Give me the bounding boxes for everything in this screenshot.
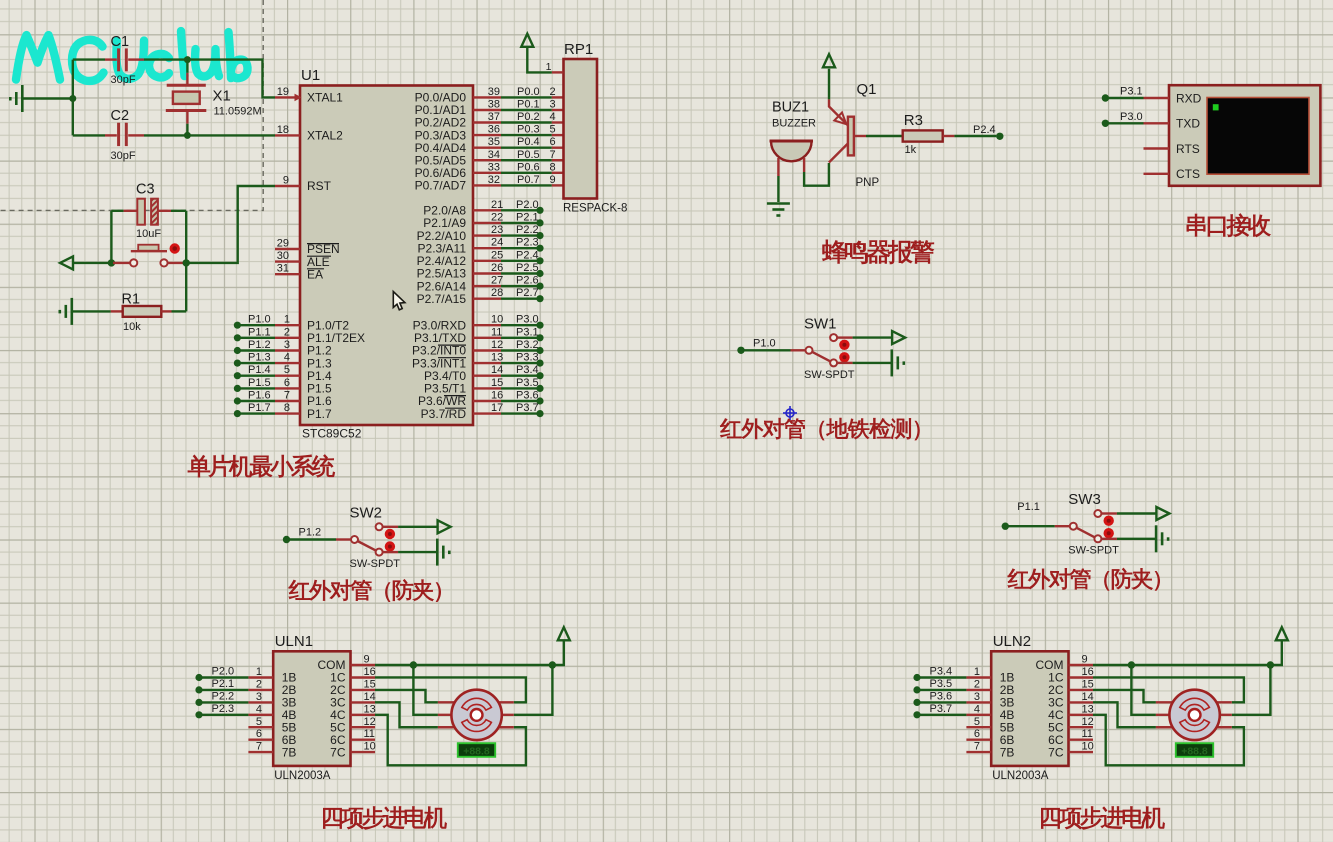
terminal dot P3.6 [536, 397, 543, 404]
svg-text:23: 23 [491, 224, 503, 236]
ULN1 pin 10 (7C) [351, 751, 376, 753]
svg-text:7: 7 [284, 390, 290, 402]
svg-text:1: 1 [256, 666, 262, 678]
terminal dot P2.6 [536, 283, 543, 290]
ground (SW1) [892, 349, 904, 376]
svg-text:C3: C3 [136, 182, 155, 198]
svg-text:29: 29 [277, 238, 289, 250]
power terminal VCC (ULN2 motor) [1276, 627, 1288, 640]
svg-text:5: 5 [284, 364, 290, 376]
capacitor C3 (electrolytic) [111, 199, 186, 225]
wire COM branch to motor left-middle (ULN1) [413, 665, 438, 715]
terminal dot P1.2 [234, 347, 241, 354]
origin crosshair marker [783, 406, 797, 420]
wire COM branch to motor right-middle (ULN2) [1232, 665, 1271, 715]
caption: IR pair (anti-pinch) right [1008, 568, 1160, 590]
overline P3.3/INT1 [438, 357, 466, 359]
ULN1 pin 2 (2B) [248, 689, 273, 691]
svg-text:P2.1: P2.1 [212, 678, 235, 690]
svg-text:P3.7: P3.7 [930, 703, 953, 715]
switch SW3 (SW-SPDT) [1002, 510, 1114, 542]
node junction COM-left (ULN1) [410, 661, 417, 668]
terminal dot P1.3 [234, 360, 241, 367]
terminal dot P2.1 [195, 686, 202, 693]
terminal dot P2.1 [536, 219, 543, 226]
svg-text:6: 6 [256, 728, 262, 740]
wire P2.7 [501, 298, 540, 300]
pin 28 P2.7 [473, 298, 501, 300]
wire P3.6 [917, 701, 966, 703]
svg-text:P3.7: P3.7 [516, 402, 539, 414]
pin RTS [1144, 147, 1170, 149]
virtual terminal (serial receiver) body [1169, 85, 1320, 186]
svg-text:P1.0: P1.0 [753, 337, 776, 349]
svg-text:13: 13 [491, 352, 503, 364]
svg-text:38: 38 [488, 99, 500, 111]
terminal dot P2.3 [536, 245, 543, 252]
terminal dot P3.5 [913, 686, 920, 693]
pin 27 P2.6 [473, 285, 501, 287]
wire P3.5 [917, 689, 966, 691]
overline P3.2/INT0 [438, 344, 466, 346]
svg-text:P1.1: P1.1 [1017, 501, 1040, 513]
svg-text:14: 14 [491, 364, 503, 376]
wire ground to junction [22, 97, 73, 99]
wire P0.3 to RP1 [501, 134, 552, 136]
svg-text:30: 30 [277, 250, 289, 262]
svg-text:P3.5: P3.5 [930, 678, 953, 690]
wire P3.7 [501, 412, 540, 414]
overline P3.6/WR [444, 395, 466, 397]
svg-text:7: 7 [256, 741, 262, 753]
pin 9 (RST) [275, 185, 300, 187]
wire COM branch to motor left-middle (ULN2) [1131, 665, 1156, 715]
power terminal VCC (ULN1 motor) [558, 627, 570, 640]
svg-text:6: 6 [284, 377, 290, 389]
svg-text:16: 16 [491, 390, 503, 402]
ULN2 pin 11 (6C) [1069, 739, 1094, 741]
svg-text:P3.4: P3.4 [516, 364, 539, 376]
pin 22 P2.1 [473, 222, 501, 224]
svg-text:13: 13 [1082, 703, 1094, 715]
caption: serial receive [1187, 214, 1271, 237]
svg-text:28: 28 [491, 287, 503, 299]
svg-text:2: 2 [550, 86, 556, 98]
svg-text:P0.4: P0.4 [517, 136, 540, 148]
resistor pack RP1 body [564, 59, 598, 199]
wire 1C to motor right-top (ULN1) [375, 677, 526, 702]
motor rpm display (ULN1) [458, 743, 495, 757]
wire P3.4 [917, 676, 966, 678]
transistor Q1 (PNP) [829, 99, 854, 162]
pin 33 P0.6 [473, 172, 501, 174]
svg-text:SW-SPDT: SW-SPDT [350, 558, 401, 570]
terminal dot P2.4 [536, 257, 543, 264]
terminal dot P1.1 [234, 334, 241, 341]
pin 38 P0.1 [473, 109, 501, 111]
wire P1.4 [237, 375, 275, 377]
pin 18 (XTAL2) [275, 134, 300, 136]
svg-text:P2.4: P2.4 [973, 124, 996, 136]
ULN1 pin 7 (7B) [248, 751, 273, 753]
pin 13 P3.3 [473, 362, 501, 364]
pin 16 P3.6 [473, 400, 501, 402]
wire P3.4 [501, 375, 540, 377]
mouse cursor [393, 292, 405, 310]
ULN2 pin 2 (2B) [966, 689, 991, 691]
svg-text:P1.7: P1.7 [248, 402, 271, 414]
svg-text:P2.7/A15: P2.7/A15 [417, 292, 467, 306]
wire P1.7 [237, 412, 275, 414]
ULN1 pin 14 (3C) [351, 701, 376, 703]
pin 19 (XTAL1) [275, 96, 300, 98]
wire Q1 emitter to VCC [828, 69, 830, 100]
overline PSEN [307, 243, 339, 245]
wire R1 up to reset node [185, 263, 187, 312]
svg-text:8: 8 [284, 402, 290, 414]
svg-text:P0.0: P0.0 [517, 86, 540, 98]
pin 21 P2.0 [473, 209, 501, 211]
svg-text:P2.3: P2.3 [212, 703, 235, 715]
svg-text:P2.0: P2.0 [516, 199, 539, 211]
terminal dot P3.0 [1102, 120, 1109, 127]
terminal arrow (reset net) [60, 256, 73, 269]
svg-text:11: 11 [364, 728, 375, 740]
svg-text:SW3: SW3 [1068, 491, 1101, 508]
push button (reset) [113, 245, 186, 267]
svg-text:2: 2 [974, 678, 980, 690]
svg-text:15: 15 [1082, 678, 1094, 690]
svg-text:ULN2: ULN2 [993, 633, 1031, 650]
svg-text:P2.0: P2.0 [212, 666, 235, 678]
wire P1.2 [237, 349, 275, 351]
svg-text:RTS: RTS [1176, 142, 1200, 156]
switch SW2 (SW-SPDT) [283, 523, 395, 555]
svg-text:P1.1: P1.1 [248, 326, 271, 338]
pin 23 P2.2 [473, 234, 501, 236]
terminal dot P3.4 [913, 674, 920, 681]
ground (SW2) [437, 539, 449, 566]
wire P3.3 [501, 362, 540, 364]
node junction button left [108, 259, 115, 266]
svg-text:SW2: SW2 [350, 505, 383, 522]
svg-text:P0.7: P0.7 [517, 174, 540, 186]
wire P2.6 [501, 285, 540, 287]
capacitor C1 [73, 48, 188, 71]
svg-text:ULN2003A: ULN2003A [992, 770, 1049, 782]
ground (buzzer) [767, 204, 790, 216]
svg-text:P3.1: P3.1 [1120, 86, 1143, 98]
svg-text:C1: C1 [111, 34, 130, 50]
wire buzzer left leg to ground [777, 158, 779, 202]
svg-text:12: 12 [1082, 716, 1094, 728]
power terminal VCC (Q1) [823, 54, 835, 67]
svg-text:Q1: Q1 [857, 81, 877, 98]
RP1 pin 2 [552, 96, 564, 98]
wire Q1 base to R3 [854, 135, 903, 137]
svg-text:5: 5 [974, 716, 980, 728]
pin 25 P2.4 [473, 260, 501, 262]
wire P3.1 [501, 337, 540, 339]
svg-text:3: 3 [550, 99, 556, 111]
caption: 4-phase stepper motor (ULN2) [1041, 806, 1164, 829]
terminal dot P1.5 [234, 385, 241, 392]
wire P2.4 [501, 260, 540, 262]
svg-text:P1.4: P1.4 [248, 364, 271, 376]
wire reset node to RST pin [186, 186, 275, 263]
svg-text:P0.6: P0.6 [517, 161, 540, 173]
wire 2C to motor left-top (ULN1) [375, 690, 438, 702]
pin 6 P1.5 [275, 387, 300, 389]
svg-text:25: 25 [491, 249, 503, 261]
svg-text:RESPACK-8: RESPACK-8 [563, 203, 627, 215]
svg-text:P1.5: P1.5 [248, 377, 271, 389]
wire R3 to P2.4 terminal [954, 135, 996, 137]
wire P2.5 [501, 272, 540, 274]
svg-text:P2.2: P2.2 [212, 690, 235, 702]
wire ground to R1 [72, 310, 111, 312]
svg-text:33: 33 [488, 161, 500, 173]
crystal X1 [166, 60, 207, 136]
pin 3 P1.2 [275, 349, 300, 351]
svg-text:P1.0: P1.0 [248, 314, 271, 326]
terminal dot P3.0 [536, 322, 543, 329]
wire P2.0 [501, 209, 540, 211]
capacitor C2 [73, 123, 188, 146]
wire P3.0 [501, 324, 540, 326]
svg-text:P0.3: P0.3 [517, 124, 540, 136]
svg-text:BUZZER: BUZZER [772, 118, 816, 130]
wire P3.1 to RXD [1105, 97, 1143, 99]
svg-text:P3.4: P3.4 [930, 666, 953, 678]
svg-text:P0.7/AD7: P0.7/AD7 [415, 179, 467, 193]
svg-text:10: 10 [1082, 741, 1094, 753]
node junction COM-left (ULN2) [1128, 661, 1135, 668]
svg-text:ULN2003A: ULN2003A [274, 770, 331, 782]
caption: IR pair (metro detection) [720, 418, 919, 440]
wire junction to XTAL2 pin [187, 134, 275, 136]
svg-text:P1.3: P1.3 [248, 352, 271, 364]
terminal dot P2.5 [536, 270, 543, 277]
wire P0.0 to RP1 [501, 96, 552, 98]
svg-text:3: 3 [974, 691, 980, 703]
svg-text:4: 4 [284, 352, 290, 364]
pin 10 P3.0 [473, 324, 501, 326]
svg-text:3: 3 [256, 691, 262, 703]
pin 30 (ALE) [275, 260, 300, 262]
RP1 pin 6 [552, 146, 564, 148]
wire C3 left down [110, 211, 112, 263]
terminal arrow (SW3) [1156, 507, 1169, 520]
ULN2 pin 15 (2C) [1069, 689, 1094, 691]
svg-text:11: 11 [491, 326, 502, 338]
wire P2.0 [199, 676, 248, 678]
svg-text:P2.2: P2.2 [516, 224, 539, 236]
svg-text:37: 37 [488, 111, 500, 123]
svg-text:3: 3 [284, 339, 290, 351]
RP1 pin 8 [552, 172, 564, 174]
svg-text:39: 39 [488, 86, 500, 98]
wire P0.7 to RP1 [501, 184, 552, 186]
ULN2 pin 10 (7C) [1069, 751, 1094, 753]
RP1 pin 5 [552, 134, 564, 136]
pin 36 P0.3 [473, 134, 501, 136]
svg-text:6: 6 [974, 728, 980, 740]
terminal cursor [1213, 104, 1219, 110]
svg-text:+88.8: +88.8 [463, 745, 490, 757]
svg-text:RST: RST [307, 179, 332, 193]
ULN1 pin 1 (1B) [248, 676, 273, 678]
wire P3.0 to TXD [1105, 122, 1143, 124]
svg-text:15: 15 [364, 678, 376, 690]
IC U1 STC89C52 body [300, 86, 473, 426]
terminal dot P3.4 [536, 372, 543, 379]
svg-text:30pF: 30pF [111, 74, 136, 86]
wire P2.1 [501, 222, 540, 224]
svg-text:32: 32 [488, 174, 500, 186]
terminal dot P3.5 [536, 385, 543, 392]
terminal dot P1.4 [234, 372, 241, 379]
svg-text:4: 4 [550, 111, 556, 123]
MCUclub logo [16, 31, 248, 81]
svg-text:PNP: PNP [856, 177, 880, 189]
svg-text:P1.2: P1.2 [299, 527, 322, 539]
svg-text:11.0592M: 11.0592M [214, 106, 262, 118]
terminal dot P3.7 [913, 711, 920, 718]
terminal dot P3.6 [913, 699, 920, 706]
wire P3.7 [917, 714, 966, 716]
wire 4C to motor right-bottom (ULN1) [375, 715, 526, 766]
svg-text:4: 4 [256, 703, 262, 715]
terminal dot P3.1 [536, 334, 543, 341]
wire 3C to motor left-bottom (ULN1) [375, 702, 438, 727]
pin 4 P1.3 [275, 362, 300, 364]
ULN2 pin 13 (4C) [1069, 714, 1094, 716]
ULN1 pin 16 (1C) [351, 676, 376, 678]
caption: 4-phase stepper motor (ULN1) [323, 806, 446, 829]
svg-text:RP1: RP1 [564, 41, 593, 58]
terminal dot P2.0 [195, 674, 202, 681]
pin 17 P3.7 [473, 412, 501, 414]
wire SW2 throw2 to ground [383, 551, 438, 553]
svg-text:SW-SPDT: SW-SPDT [804, 369, 855, 381]
wire P1.0 [237, 324, 275, 326]
wire P0.4 to RP1 [501, 146, 552, 148]
terminal dot P2.4 [996, 133, 1003, 140]
svg-text:P3.0: P3.0 [516, 314, 539, 326]
wire P2.3 [501, 247, 540, 249]
terminal dot P2.2 [536, 232, 543, 239]
svg-text:4: 4 [974, 703, 980, 715]
svg-text:1k: 1k [905, 144, 917, 156]
selection marquee dashed lines [0, 0, 263, 210]
svg-text:U1: U1 [301, 67, 320, 84]
ULN1 pin 11 (6C) [351, 739, 376, 741]
resistor R3 [903, 130, 955, 141]
pin 7 P1.6 [275, 400, 300, 402]
pin 35 P0.4 [473, 146, 501, 148]
svg-text:35: 35 [488, 136, 500, 148]
svg-text:11: 11 [1082, 728, 1093, 740]
ground (SW3) [1156, 525, 1168, 552]
node junction XTAL1/C1 [184, 56, 191, 63]
ULN2 pin 12 (5C) [1069, 726, 1094, 728]
RP1 pin 3 [552, 109, 564, 111]
terminal dot P3.3 [536, 360, 543, 367]
svg-text:9: 9 [550, 174, 556, 186]
ULN2 pin 16 (1C) [1069, 676, 1094, 678]
pin 39 P0.0 [473, 96, 501, 98]
pin 37 P0.2 [473, 121, 501, 123]
svg-text:P3.2: P3.2 [516, 339, 539, 351]
wire 4C to motor right-bottom (ULN2) [1093, 715, 1244, 766]
svg-text:5: 5 [550, 124, 556, 136]
caption: buzzer alarm [822, 240, 933, 264]
wire COM to VCC (ULN1) [375, 640, 564, 665]
RP1 pin 4 [552, 121, 564, 123]
pin RXD [1144, 97, 1170, 99]
svg-text:9: 9 [364, 654, 370, 666]
svg-text:18: 18 [277, 124, 289, 136]
svg-text:8: 8 [550, 161, 556, 173]
pin 34 P0.5 [473, 159, 501, 161]
wire P1.5 [237, 387, 275, 389]
pin TXD [1144, 122, 1170, 124]
svg-text:12: 12 [364, 716, 376, 728]
svg-text:1: 1 [284, 314, 290, 326]
ground (crystal cluster) [10, 85, 22, 112]
svg-text:ULN1: ULN1 [275, 633, 313, 650]
svg-text:P3.6: P3.6 [516, 390, 539, 402]
svg-text:31: 31 [277, 263, 289, 275]
ULN1 pin 6 (6B) [248, 739, 273, 741]
svg-text:P3.5: P3.5 [516, 377, 539, 389]
svg-text:7B: 7B [1000, 745, 1015, 759]
node junction COM-right (ULN1) [549, 661, 556, 668]
XTAL1 pin wedge marker [295, 94, 302, 102]
svg-text:36: 36 [488, 124, 500, 136]
svg-text:22: 22 [491, 211, 503, 223]
stepper motor (ULN1) [438, 690, 514, 740]
svg-text:P1.7: P1.7 [307, 407, 332, 421]
caption: IR pair (anti-pinch) left [289, 579, 441, 601]
ULN1 pin 13 (4C) [351, 714, 376, 716]
svg-text:5: 5 [256, 716, 262, 728]
svg-text:14: 14 [364, 691, 376, 703]
svg-text:P0.2: P0.2 [517, 111, 540, 123]
ULN2 pin 14 (3C) [1069, 701, 1094, 703]
svg-text:SW-SPDT: SW-SPDT [1068, 545, 1119, 557]
wire 3C to motor left-bottom (ULN2) [1093, 702, 1156, 727]
svg-text:BUZ1: BUZ1 [772, 100, 809, 116]
IC ULN1 ULN2003A body [273, 651, 350, 766]
svg-text:SW1: SW1 [804, 315, 837, 332]
svg-text:9: 9 [283, 175, 289, 187]
wire 2C to motor left-top (ULN2) [1093, 690, 1156, 702]
wire P0.1 to RP1 [501, 109, 552, 111]
svg-text:R3: R3 [904, 112, 923, 129]
svg-text:P0.5: P0.5 [517, 149, 540, 161]
switch SW1 (SW-SPDT) [737, 334, 849, 366]
svg-text:12: 12 [491, 339, 503, 351]
svg-text:STC89C52: STC89C52 [302, 427, 362, 441]
svg-text:21: 21 [491, 199, 503, 211]
ULN1 pin 5 (5B) [248, 726, 273, 728]
wire P1.1 [237, 337, 275, 339]
overline P3.7/RD [445, 407, 466, 409]
node junction C1/C2 left [69, 95, 76, 102]
ULN2 pin 6 (6B) [966, 739, 991, 741]
